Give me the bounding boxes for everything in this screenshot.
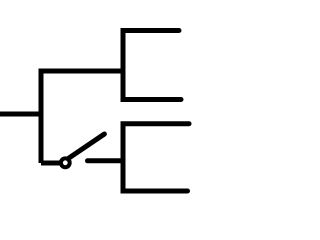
connector J2 (lower throw terminal, C-shaped header symbol) [123,124,189,191]
wire: vertical bus from top node down to switch pole [39,69,44,164]
wire: switch throw lead to lower connector [88,158,124,163]
switch SW1 pivot contact (open circle) [61,158,70,167]
wire: switch pole lead [41,161,60,166]
wire: left input lead [0,112,41,117]
switch SW1 lever (open throw arm) [69,134,105,158]
wire: top horizontal to upper connector [39,69,124,74]
connector J1 (upper throw terminal, C-shaped header symbol) [123,31,181,100]
